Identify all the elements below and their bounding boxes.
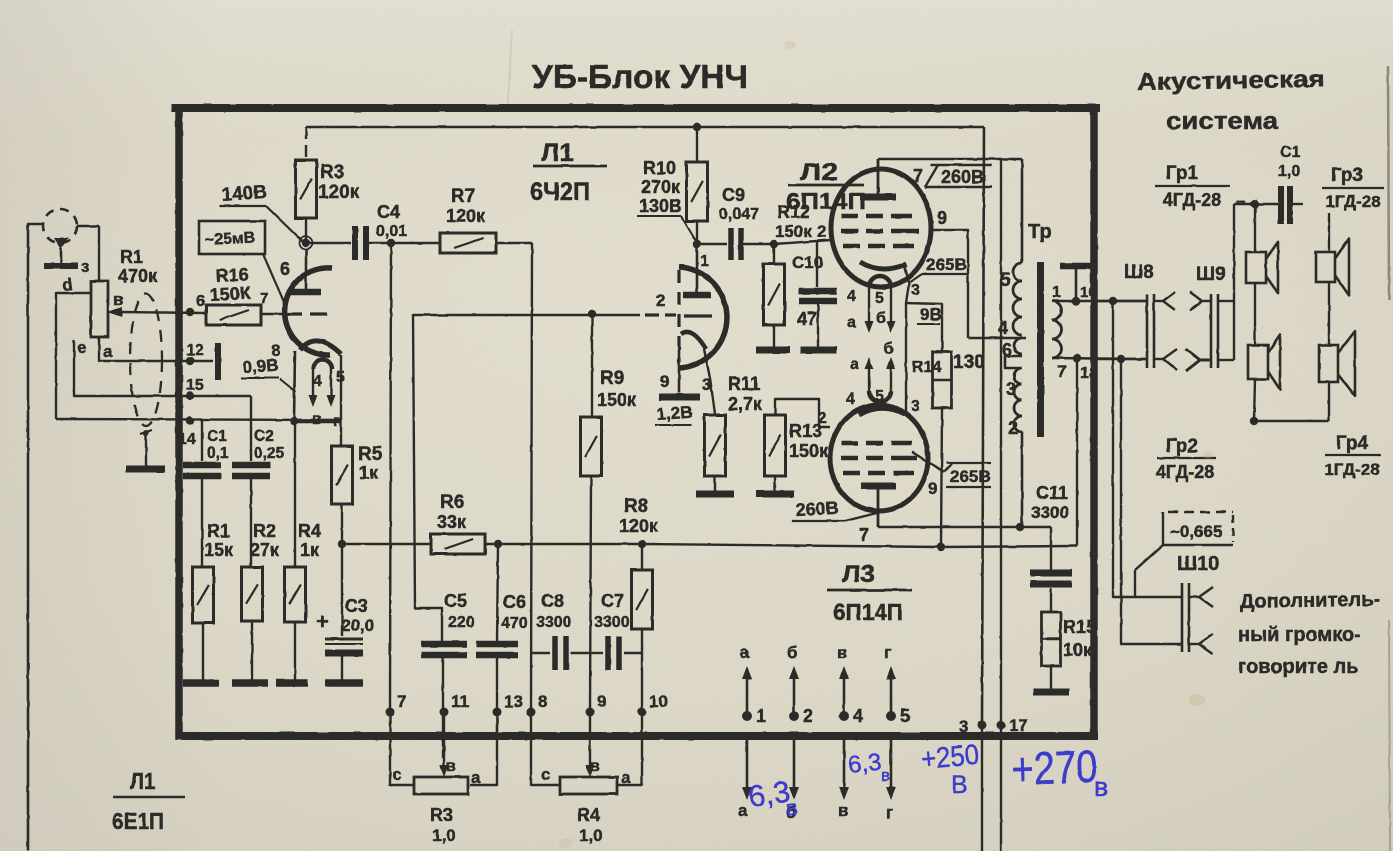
label C5 220	[444, 591, 475, 631]
resistor R1k lead	[201, 476, 203, 567]
rail corner down to pin3	[982, 127, 984, 725]
node label в	[113, 290, 123, 309]
resistor R12 body	[764, 264, 785, 325]
wire bottom across	[1254, 420, 1329, 422]
Tp primary top lead	[1021, 159, 1024, 263]
capacitor C6 top lead	[497, 544, 498, 643]
speaker rail A	[1233, 204, 1235, 360]
triode2 cathode bar	[659, 394, 700, 401]
Tp secondary bottom wire	[1052, 358, 1145, 359]
triode1 cathode curve	[300, 341, 341, 354]
Tp secondary numbers	[1052, 284, 1098, 382]
pointer 0,9В	[280, 379, 296, 392]
pot R1 wiper arrow	[107, 307, 206, 317]
chassis dash ground under R4	[276, 679, 308, 687]
node C4 right	[387, 239, 395, 247]
chassis dash ground under C3	[325, 679, 363, 687]
label Гр1	[1155, 163, 1230, 210]
Tp primary bottom lead	[1021, 432, 1024, 527]
node label d	[61, 275, 74, 295]
potentiometer R1 top lead	[98, 226, 100, 281]
Л3 pins 4 5 3	[846, 388, 920, 415]
label 130	[953, 352, 985, 373]
chassis dash ground under R2	[232, 679, 268, 687]
triode2 plate bar	[683, 292, 711, 299]
label а Л2	[847, 314, 856, 331]
pin 7 node	[386, 708, 395, 717]
pointer 260В Л3	[845, 513, 877, 521]
pin 11 label	[451, 692, 469, 711]
wire mic left down page	[28, 224, 42, 851]
pin10 wire	[617, 712, 642, 785]
Л3 heater dome	[869, 391, 891, 402]
wire border to Ш8 bottom	[1097, 358, 1146, 360]
capacitor C7 leads	[590, 652, 642, 654]
ground bar C10	[800, 347, 837, 354]
label R3 1,0	[430, 805, 456, 845]
label говоритель	[1238, 656, 1359, 678]
capacitor C4 plates	[355, 226, 366, 260]
label 9В	[917, 305, 942, 324]
potentiometer R1 body	[91, 281, 108, 337]
label 8	[271, 341, 280, 360]
label R7 120к	[446, 186, 486, 226]
arrow to C1	[1247, 199, 1257, 209]
pin 12 inner stub	[190, 360, 213, 362]
label C3 plus	[316, 609, 329, 634]
capacitor C10 plates	[799, 291, 837, 301]
Л3 plate stem	[877, 486, 880, 527]
label Акустическая	[1137, 66, 1325, 96]
paper crease	[508, 30, 512, 105]
wire Гр3 top	[1328, 213, 1330, 252]
wire C1 node to Гр1	[1254, 204, 1256, 252]
Ш9 fork bottom	[1186, 349, 1211, 371]
wire grid2 long	[413, 314, 640, 316]
inner rail +250	[306, 126, 984, 129]
resistor R9 lead top	[591, 314, 593, 417]
heater arrow up г	[886, 666, 896, 716]
stain 2	[559, 838, 573, 848]
page fold line lower	[1389, 620, 1390, 851]
wire Гр4 bottom	[1328, 382, 1330, 421]
wire Гр2 bottom	[1254, 379, 1255, 421]
Ш9 to rail bottom	[1218, 359, 1234, 361]
label R16 150К	[209, 264, 252, 305]
Л3 plate bar	[861, 483, 896, 490]
wire down to Ш10 lower	[1121, 359, 1182, 644]
stain 3	[1203, 451, 1213, 459]
pin 3 label	[959, 717, 968, 736]
pointer 140В to node	[266, 206, 303, 242]
wire e-line to pin 15	[74, 340, 188, 396]
resistor R10 bottom lead	[696, 221, 698, 244]
label C9 0,047	[719, 185, 759, 223]
Л3 screen diag	[912, 452, 944, 472]
capacitor C1 top lead	[201, 420, 203, 461]
callout 0,665 box	[1163, 512, 1233, 545]
node rail R10	[693, 123, 701, 131]
wire C1 node	[1234, 203, 1278, 205]
pointer box to wire	[1135, 545, 1163, 597]
pin 10 node	[638, 708, 647, 717]
heater label г top	[884, 643, 891, 662]
label R4 1к	[298, 521, 321, 560]
pin 12 socket bar	[215, 343, 221, 380]
label pin2 Л2	[817, 222, 826, 241]
speaker Гр4	[1319, 331, 1355, 396]
resistor R8 leads	[641, 544, 643, 712]
pin11 arrow into R3	[440, 712, 449, 777]
rail to R14	[642, 544, 941, 547]
node R5 C3	[338, 540, 346, 548]
pin 17 rail	[1000, 158, 1002, 851]
label Гр3	[1322, 165, 1384, 211]
Tp primary winding 4-6	[1014, 338, 1022, 354]
resistor R3 120k body	[296, 160, 317, 218]
speaker Гр3	[1316, 239, 1349, 296]
label 9 screen	[937, 208, 947, 228]
resistor R3 bottom lead	[305, 218, 307, 243]
Tp primary numbers	[998, 270, 1018, 438]
label 0,9В	[241, 356, 279, 378]
Л3 heater arrow b	[887, 357, 896, 391]
wire C4 to R7	[366, 242, 440, 244]
heater arrow up в	[839, 666, 849, 716]
triode1 plate lead	[305, 250, 308, 289]
Tp primary winding 5-4	[1013, 263, 1022, 335]
label Л1 6Е1П	[112, 768, 185, 834]
triode2 cathode lead	[678, 349, 681, 393]
Л3 grid dashes row2	[841, 456, 917, 461]
Л2 screen wire	[929, 230, 968, 338]
heater pin 4 node	[839, 711, 849, 721]
triode1 heater loop	[313, 360, 332, 370]
node R10 bottom	[693, 240, 701, 248]
node R12 top	[770, 240, 778, 248]
heater pin 5 label	[900, 706, 910, 726]
labels с в а R3	[392, 758, 481, 787]
resistor R13 top wire	[775, 399, 830, 427]
microphone ground bar	[44, 263, 78, 269]
wire node to C4	[306, 242, 351, 244]
triode1 grid dashes	[285, 312, 327, 315]
pentode Л3 envelope	[830, 405, 928, 511]
resistor R5 bottom lead	[341, 504, 343, 544]
capacitor C6 bottom	[470, 655, 497, 785]
pin8 wire to pot R4	[531, 712, 560, 785]
label Гр4	[1324, 433, 1381, 479]
triode1 plate bar	[290, 289, 321, 296]
capacitor C10 top lead	[816, 240, 818, 287]
Ш9 to rail top	[1218, 300, 1234, 302]
stain 4	[784, 41, 796, 49]
wire pin14 line	[56, 419, 342, 420]
label 9 t2	[660, 372, 669, 391]
label R6 33к	[437, 492, 467, 532]
resistor R1 bottom lead	[202, 623, 204, 681]
Tp core bar	[1037, 262, 1044, 437]
pin 8 node	[527, 708, 536, 717]
heater label в top	[837, 643, 847, 662]
ground bar R13	[756, 491, 794, 498]
node R8 top	[638, 540, 646, 548]
Л2 heater arrow a	[865, 287, 874, 333]
wire R7 corner down to pin8	[531, 243, 532, 712]
capacitor C11 corner	[1050, 527, 1052, 570]
label 4	[313, 373, 322, 390]
pin 13 node	[493, 708, 502, 717]
label pin 1	[700, 253, 709, 270]
capacitor C5 plates	[421, 644, 467, 655]
label C6 470	[501, 592, 528, 632]
pin 7 label	[397, 692, 406, 711]
capacitor C8 plates	[555, 636, 566, 670]
wire Гр1 to Гр2	[1254, 283, 1256, 345]
pin 12 label	[186, 342, 204, 359]
Ш10 fork bottom	[1189, 634, 1213, 654]
callout ~25мВ box	[199, 221, 265, 254]
capacitor C9 plates	[731, 228, 741, 260]
heater pin 4 label	[853, 706, 863, 726]
resistor R13 body	[765, 415, 786, 476]
label pin7 grid	[260, 290, 268, 307]
pin 15 inner wire to C2	[190, 395, 251, 397]
label R2 27к	[250, 521, 280, 560]
capacitor C5 lead	[441, 640, 443, 643]
wire Л3 plate to C11	[878, 526, 1051, 528]
callout 265В Л3	[944, 463, 991, 487]
feedback wire vertical	[413, 314, 442, 640]
resistor R9 lead bottom	[590, 476, 591, 712]
label г	[333, 413, 340, 430]
label Ш10	[1177, 553, 1219, 575]
blue 6,3в mid	[847, 749, 890, 785]
pin 9 label	[597, 692, 606, 711]
label R9 150к	[597, 368, 637, 410]
Л2 cathode wire	[904, 266, 942, 352]
label C4 0,01	[376, 202, 407, 240]
heater pin 2 node	[789, 711, 799, 721]
label 9 Л3	[928, 479, 937, 498]
resistor R10 body	[687, 162, 708, 221]
blue 6,3в left	[746, 775, 799, 821]
label б Л3	[883, 340, 895, 358]
Tp primary winding 6-2	[1014, 368, 1022, 432]
pointer 130В to node	[681, 216, 696, 241]
Tp secondary T symbol	[1060, 266, 1091, 299]
Ш8 fork top	[1154, 292, 1175, 310]
label Гр2	[1156, 436, 1216, 482]
triode2 plate lead	[696, 244, 699, 292]
triode2 grid vertical dashed	[677, 270, 680, 362]
label 1,2В	[655, 403, 693, 425]
resistor R3 120k top lead	[305, 127, 307, 160]
heater arrow down г	[886, 740, 896, 800]
triode1 heater pin 5 arrow	[327, 369, 336, 407]
microphone crystal element	[54, 238, 68, 264]
capacitor C11 bottom lead	[1050, 588, 1052, 612]
frame top border	[171, 104, 1100, 112]
resistor R6 body	[431, 534, 485, 554]
Л3 heater arrow a	[865, 357, 874, 391]
label 47	[797, 309, 817, 329]
capacitor C7 plates	[608, 636, 619, 670]
node label а	[103, 342, 113, 361]
pointer 25мВ to grid	[263, 254, 284, 302]
resistor R1 15k body	[193, 567, 214, 623]
pin 3 node	[978, 721, 987, 730]
Л2 heater dome	[869, 276, 891, 287]
Ш10 fork top	[1189, 587, 1213, 607]
speaker Гр2	[1248, 334, 1280, 389]
Tp label	[1028, 221, 1052, 243]
label C3 20,0	[341, 596, 374, 635]
heater pin 1 node	[742, 711, 752, 721]
pot R3 body	[414, 777, 468, 794]
wire cathode2 to R11	[704, 349, 715, 414]
pin 12 node	[186, 357, 194, 365]
rail R6 left	[342, 543, 431, 545]
node label е	[77, 338, 86, 357]
label R11 2,7к	[728, 374, 763, 414]
Л2 plate bar	[860, 194, 896, 201]
label R10 270к 130В	[637, 158, 682, 216]
wire border to Ш8 top	[1097, 300, 1146, 302]
heater arrow down б	[789, 740, 799, 800]
label С1 1,0	[1278, 144, 1301, 180]
pin 14 label	[178, 431, 196, 448]
node R14 rail	[937, 543, 945, 551]
triode1 grid pin label 6	[280, 259, 290, 279]
resistor R14 bottom lead	[941, 408, 942, 547]
frame bottom border	[176, 732, 1098, 740]
label 260В Л3	[792, 498, 845, 521]
shield ground bar	[126, 466, 165, 473]
wire to Л2 grid	[774, 240, 831, 244]
label C11 3300	[1031, 483, 1069, 522]
label а Л3	[850, 356, 859, 373]
pin 6 label	[196, 293, 205, 310]
microphone B1 dashed circle	[43, 209, 77, 243]
label 5	[336, 369, 345, 386]
resistor R4 bottom lead	[294, 622, 296, 681]
capacitor C5 bottom	[442, 655, 444, 758]
resistor R12 bottom lead	[773, 325, 775, 348]
rail to Tp	[941, 546, 1077, 547]
node cathode junction	[290, 417, 298, 425]
triode1 cathode lead	[294, 351, 295, 422]
Л2 grid dashes row2	[841, 229, 919, 234]
label Дополнитель-	[1240, 589, 1381, 613]
node down-branch top	[1109, 297, 1117, 305]
pin 9 node	[586, 708, 595, 717]
label Ш8	[1124, 262, 1154, 283]
label в	[312, 411, 322, 428]
label 7 plate	[913, 166, 923, 186]
shield dashed ellipse	[130, 294, 162, 426]
node C11	[1016, 523, 1024, 531]
pin 13 label	[504, 692, 523, 711]
Tp secondary winding	[1052, 301, 1062, 358]
pot R4 body	[560, 777, 617, 794]
label C10	[792, 253, 823, 272]
chassis dash ground under R1	[183, 679, 219, 687]
Ш8 fork bottom	[1154, 349, 1177, 370]
resistor R7 body	[440, 233, 496, 253]
connector Ш10 bars	[1182, 583, 1189, 652]
wire pot bottom to pin 12	[99, 337, 188, 361]
node grid2	[588, 310, 596, 318]
Tp tap 6 notch	[1005, 356, 1022, 368]
Л3 pin2 label	[818, 410, 827, 427]
label Ш9	[1196, 264, 1226, 285]
capacitor C10 bottom lead	[817, 301, 819, 348]
capacitor C1 right stub	[1293, 203, 1303, 205]
triode2 grid lead dashes	[645, 315, 712, 316]
blue +270в	[1011, 740, 1109, 802]
label R12 150к	[775, 202, 812, 241]
resistor R13 bottom lead	[774, 476, 776, 492]
label C2 0,25	[254, 428, 285, 462]
capacitor C6 plates	[476, 644, 518, 655]
heater pin 1 label	[756, 706, 766, 726]
heater label а top	[740, 643, 750, 662]
capacitor C2 top lead	[250, 396, 252, 461]
rail corner up to secondary	[1076, 358, 1078, 546]
Л3 grid dashes row3	[843, 471, 914, 476]
wire C9 to grid node	[741, 243, 774, 245]
label система	[1166, 108, 1279, 135]
node bottom wire	[1250, 417, 1258, 425]
resistor R11 body	[705, 415, 726, 476]
pin7 wire to pot R3	[390, 712, 414, 785]
shield stem	[145, 434, 147, 466]
wire R7 right	[496, 242, 532, 244]
node C1 Гр1	[1251, 200, 1259, 208]
Tp tap 4 wire	[968, 337, 1026, 339]
resistor R14 body	[933, 352, 952, 408]
label Л3	[827, 561, 912, 625]
wire R16 to grid	[261, 313, 285, 315]
heater arrow up б	[789, 666, 799, 716]
Л3 cathode arc	[859, 408, 905, 415]
label R1 470к	[118, 247, 158, 286]
label Л1	[530, 139, 607, 206]
Ш9 fork top	[1190, 292, 1211, 310]
heater pin 5 node	[886, 711, 896, 721]
heater label б top	[787, 643, 798, 662]
node C6 top	[494, 540, 502, 548]
wire C4 node down to pin7	[390, 243, 391, 712]
labels с в а R4	[541, 758, 631, 787]
node R3/C4/plate	[300, 237, 313, 250]
connector Ш9 bars	[1211, 294, 1218, 368]
triode1 envelope arc	[285, 268, 332, 355]
resistor R15 body	[1042, 612, 1061, 666]
label R1 15к	[204, 521, 234, 560]
label R4 1,0	[577, 805, 603, 845]
pin 3 below border	[981, 725, 983, 851]
resistor R12 top lead	[773, 244, 775, 264]
pentode Л2 envelope	[831, 169, 931, 287]
ground bar R11	[696, 491, 734, 498]
label 7 Л3	[859, 525, 869, 545]
callout 260В Л2	[925, 165, 992, 187]
frame left border	[175, 104, 183, 740]
node secondary bottom	[1073, 354, 1081, 362]
triode2 cathode curve	[681, 332, 706, 349]
